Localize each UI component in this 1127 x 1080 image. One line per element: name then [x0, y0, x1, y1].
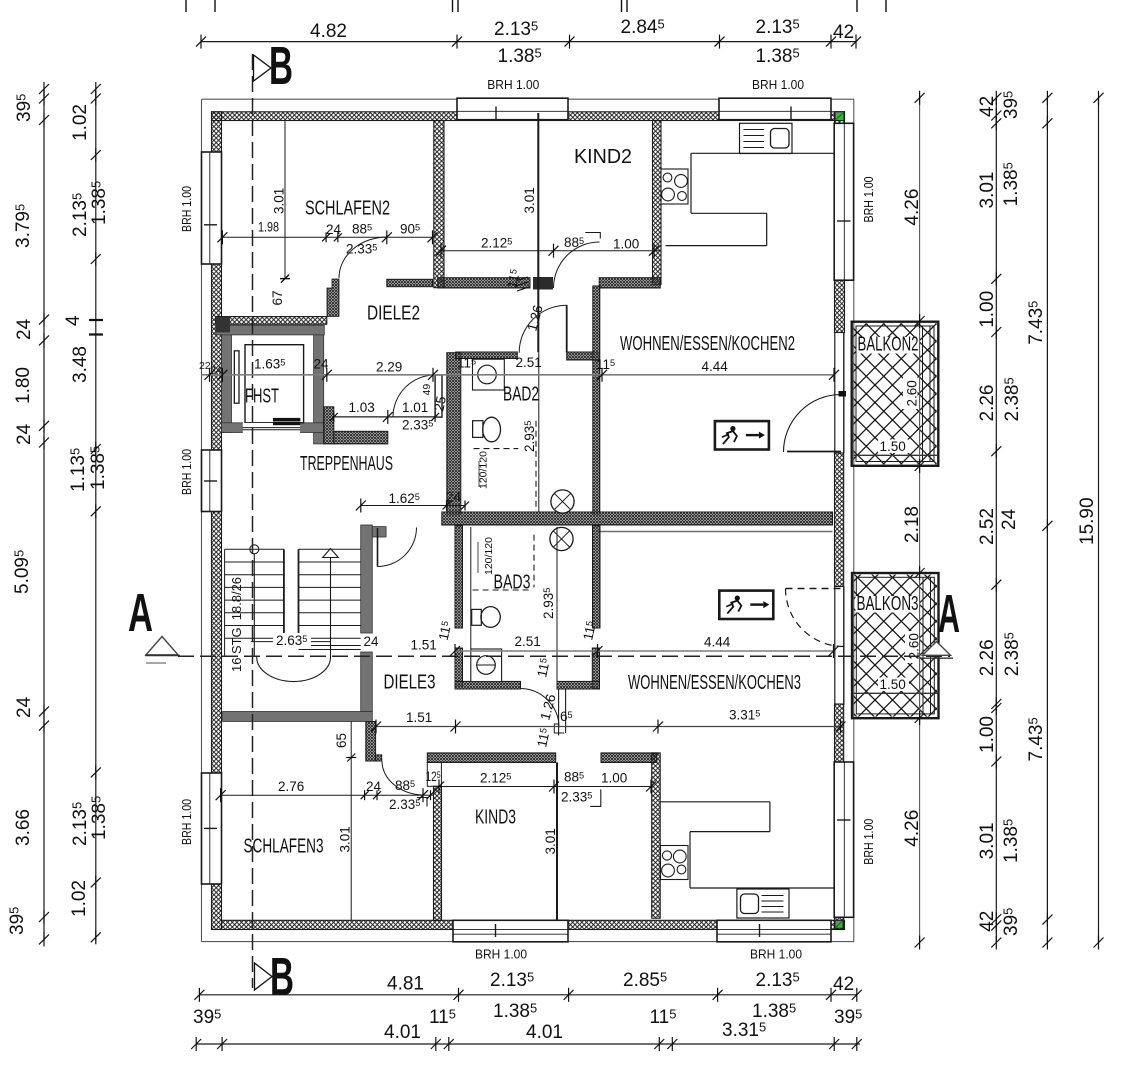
dim chain: left inner column [95, 89, 97, 941]
window: left wall window W2 (TREPPENHAUS) [202, 450, 222, 512]
svg-text:3.66: 3.66 [13, 809, 34, 846]
wall: wall below FHST / left of entry door2 [334, 431, 388, 444]
svg-text:SCHLAFEN2: SCHLAFEN2 [305, 198, 390, 220]
dim: BAD3 2.93-5 vertical [556, 527, 558, 686]
door: balcony2 door (leaf + arc + hinge) [787, 451, 841, 453]
svg-text:4.44: 4.44 [704, 635, 731, 650]
svg-text:A: A [128, 583, 153, 643]
svg-text:1.51: 1.51 [411, 638, 437, 653]
window: right wall window R1 (WOHNEN2) [834, 123, 853, 280]
svg-text:24: 24 [14, 318, 35, 340]
svg-text:2.26: 2.26 [977, 639, 998, 676]
svg-text:BRH 1.00: BRH 1.00 [750, 947, 802, 962]
wire: cut-off tick marks at very top [186, 0, 886, 12]
dim: row 2.76 / 24 / 88-5 y=795.2 [221, 794, 433, 796]
symbol: escape route sign WOHNEN3 [719, 591, 773, 619]
door: KIND3 door hook mark 2.33-5 [590, 789, 601, 806]
stairs: treads right flight [299, 549, 361, 649]
svg-text:2.76: 2.76 [278, 779, 304, 794]
svg-text:2.51: 2.51 [516, 355, 542, 370]
door: balcony3 door dashed (upper floor) [786, 588, 844, 590]
section marker B bottom [255, 963, 273, 990]
svg-text:42: 42 [833, 22, 854, 43]
door: SCHLAFEN3 door 88-5 swing arc [382, 761, 424, 795]
fixture: washbasin BAD3 [471, 649, 502, 682]
svg-text:4.01: 4.01 [384, 1022, 421, 1043]
fixture: WC BAD2 [473, 421, 483, 438]
label: BALKON3 [856, 596, 920, 613]
node: green corner marker bottom right [835, 920, 843, 928]
svg-text:24: 24 [446, 490, 462, 505]
stairs: dim 2.63-5 [251, 641, 331, 643]
svg-text:1.02: 1.02 [70, 104, 91, 141]
elevator guide bar [234, 351, 239, 403]
window: right wall window R2 (WOHNEN3) [834, 762, 853, 917]
dim chain: right line1 (4.26/2.18/4.26) [919, 98, 921, 943]
window: kitchen2 top window [719, 98, 831, 120]
dim: gray line y=651 (2.51 / 4.44) [455, 650, 834, 652]
svg-text:1.00: 1.00 [613, 237, 639, 252]
node: green corner marker top right [835, 112, 844, 121]
svg-text:B: B [270, 947, 294, 1007]
fixture: sink unit kitchen2 [740, 123, 793, 153]
svg-text:1.98: 1.98 [258, 220, 279, 235]
svg-text:4.44: 4.44 [702, 359, 729, 374]
svg-text:KIND2: KIND2 [574, 146, 632, 168]
svg-text:1.03: 1.03 [349, 400, 375, 415]
svg-text:24: 24 [314, 357, 330, 372]
svg-text:BALKON2: BALKON2 [858, 334, 919, 356]
svg-text:3.01: 3.01 [338, 826, 353, 852]
section line B-B vertical dashed [252, 54, 254, 988]
dim: row y=726.5 (1.51 / 3.31-5) [376, 726, 841, 728]
wall: WOHNEN2 left wall (11.5) [593, 286, 600, 514]
dim chain: right line2 [995, 98, 997, 943]
fixture: kitchen3 counter outline [660, 801, 770, 803]
fixture: shower dashed BAD2 [474, 448, 519, 450]
dim: balcony2 1.50 line [854, 454, 939, 456]
svg-text:16 STG. 18.8/26: 16 STG. 18.8/26 [229, 577, 244, 672]
section line A-A horizontal dashed [178, 655, 950, 657]
svg-text:3.01: 3.01 [543, 828, 558, 854]
door: apartment2 entry door (leaf + arc) [435, 375, 442, 417]
wall: bottom wall of room 2.12-5 (y 278) [438, 278, 530, 288]
svg-text:4.26: 4.26 [902, 810, 923, 847]
symbol: escape route sign WOHNEN2 [715, 421, 769, 449]
svg-text:DIELE3: DIELE3 [384, 672, 436, 694]
wall: TREPPENHAUS bottom wall (solid gray) [223, 712, 373, 722]
wall: FHST shaft bottom pieces [222, 423, 243, 433]
stairs: treads left flight [225, 549, 284, 638]
wall: KIND3 right wall (hatched X) [652, 753, 661, 918]
fixture: washbasin BAD2 [473, 359, 505, 390]
wall: BAD2 top wall pieces [456, 352, 518, 359]
wall: apartment separating wall above FHST [216, 317, 327, 325]
svg-text:42: 42 [833, 974, 854, 995]
section marker B top (triangle + letter) [254, 55, 272, 81]
shaft circles on middle wall [551, 490, 574, 513]
wall: SCHLAFEN2/KIND2-zone separating wall (hatched X) [434, 121, 444, 288]
window: kitchen3 bottom window [717, 920, 831, 942]
svg-text:1.00: 1.00 [601, 771, 627, 786]
svg-text:4.81: 4.81 [387, 974, 424, 995]
wall: KIND2 right wall (hatched X) [653, 121, 662, 285]
svg-text:BALKON3: BALKON3 [857, 593, 919, 615]
node: wall break marks on 2.12-room wall [516, 277, 529, 291]
dim: row 2.12-5 / 88-5 / 1.00 y=786.5 [439, 786, 651, 788]
window: KIND3 bottom window [453, 920, 568, 942]
dim chain: top row (4.82 / 2.13-5 / 2.84-5 / 2.13-5 / 42) [201, 41, 856, 43]
svg-text:3.01: 3.01 [977, 172, 998, 209]
door: KIND2 door hook mark 2.33-5 [585, 233, 600, 239]
svg-text:24: 24 [14, 423, 35, 445]
dim chain: bottom row1 (4.81 / 2.13-5 / 2.85-5 / 2.13-5 / 42) [199, 994, 856, 996]
svg-text:24: 24 [14, 696, 35, 718]
door: DIELE2 to WOHNEN2 door (leaf + arc) [566, 305, 568, 352]
svg-text:24: 24 [999, 508, 1020, 530]
svg-text:24: 24 [366, 779, 382, 794]
svg-text:3.01: 3.01 [272, 188, 287, 214]
wall: FHST shaft right (solid) [314, 335, 324, 444]
dim: SCHLAFEN2 row (1.98/24/88-5/90-5) y=237 [222, 236, 432, 238]
dim chain: right line4 (15.90) [1098, 98, 1100, 943]
door: corridor3/WOHNEN3 door (leaf + arc) [558, 689, 560, 736]
wall: SCHLAFEN2 bottom wall piece (90-5) [387, 279, 433, 286]
fixture: stove kitchen2 [661, 169, 688, 204]
svg-text:TREPPENHAUS: TREPPENHAUS [300, 453, 393, 475]
fixture: stove kitchen3 [661, 846, 689, 880]
svg-text:24: 24 [364, 634, 380, 649]
svg-text:2.18: 2.18 [902, 506, 923, 543]
window: left wall window W1 (SCHLAFEN2) [202, 152, 222, 264]
door: SCHLAFEN2 door 88-5 swing arc [339, 237, 387, 278]
dim: SCHLAFEN2 vertical line 3.01/1.98 [284, 121, 286, 279]
svg-text:A: A [938, 584, 960, 644]
svg-text:1.80: 1.80 [13, 367, 34, 404]
svg-text:24: 24 [326, 222, 342, 237]
wall: left exterior wall (hatched) [212, 112, 222, 930]
svg-text:120/120: 120/120 [483, 537, 495, 575]
door: KIND2 door 88-5 swing arc [554, 242, 600, 288]
svg-text:24: 24 [210, 365, 222, 377]
balcony BALKON2 box with lattice [853, 323, 936, 464]
svg-text:42: 42 [977, 96, 998, 117]
dim: SCHLAFEN3 vertical 65 / 3.01 [350, 722, 352, 921]
svg-text:BAD3: BAD3 [494, 572, 531, 594]
fixture: shower dashed BAD3 [533, 535, 535, 588]
svg-text:67: 67 [270, 290, 285, 305]
svg-text:3.01: 3.01 [522, 187, 537, 213]
svg-text:BAD2: BAD2 [503, 384, 539, 406]
svg-text:BRH 1.00: BRH 1.00 [752, 77, 804, 92]
wall: corridor3 wall below TREPPENHAUS [366, 722, 376, 762]
svg-text:42: 42 [977, 911, 998, 932]
svg-text:65: 65 [334, 733, 349, 748]
stairs: walking line with start circle [250, 545, 259, 554]
dim: row 1.03 / 1.01 y=417 [334, 416, 435, 418]
svg-text:SCHLAFEN3: SCHLAFEN3 [244, 836, 324, 858]
svg-text:4.01: 4.01 [526, 1022, 563, 1043]
node: dark block on left wall at FHST (22/24) [216, 317, 230, 332]
svg-text:3.48: 3.48 [70, 346, 91, 383]
wire: right wall face lines at door zones [834, 333, 836, 454]
svg-text:2.26: 2.26 [977, 385, 998, 422]
dim: gray line y=374.8 (1.63-5 / 2.29 / 4.44) [202, 374, 835, 376]
svg-text:2.29: 2.29 [376, 360, 402, 375]
wall: BAD2 left wall column [447, 353, 461, 514]
elevator door sill [243, 423, 301, 432]
svg-text:1.51: 1.51 [406, 710, 432, 725]
label: BALKON2 [857, 337, 920, 354]
wall: BAD3 bottom wall pieces [455, 681, 521, 689]
wall: partition mullion KIND2 (11.5) [537, 113, 539, 352]
wall: KIND3 top wall pieces [427, 753, 555, 763]
svg-text:1.50: 1.50 [880, 439, 906, 454]
door: apartment3 entry door from TREPPENHAUS (leaf + arc) [377, 528, 379, 567]
svg-text:B: B [269, 36, 293, 96]
svg-text:1.01: 1.01 [402, 400, 428, 415]
svg-text:WOHNEN/ESSEN/KOCHEN2: WOHNEN/ESSEN/KOCHEN2 [620, 333, 795, 355]
svg-text:BRH 1.00: BRH 1.00 [475, 947, 527, 962]
svg-text:BRH 1.00: BRH 1.00 [179, 799, 194, 845]
wall: bottom exterior wall (hatched) [222, 920, 845, 929]
svg-text:2.52: 2.52 [977, 508, 998, 545]
svg-text:1.02: 1.02 [69, 880, 90, 917]
wall: FHST shaft top (solid) [216, 325, 325, 335]
fixture: kitchen2 counter outline [691, 152, 835, 154]
svg-text:4.82: 4.82 [310, 21, 347, 42]
svg-text:1.00: 1.00 [977, 291, 998, 328]
svg-text:49: 49 [421, 384, 433, 396]
svg-text:BRH 1.00: BRH 1.00 [179, 449, 194, 495]
svg-text:25: 25 [431, 395, 449, 413]
svg-text:3.01: 3.01 [977, 822, 998, 859]
wall: right exterior wall segments (hatched) [835, 112, 845, 124]
svg-text:1.50: 1.50 [880, 677, 906, 692]
elevator FHST car [245, 345, 304, 423]
wall: BAD3 right wall (11.5) [593, 526, 601, 628]
svg-text:DIELE2: DIELE2 [367, 303, 420, 325]
wire: outer envelope thin outline [202, 98, 855, 100]
wall: middle apartment separating wall [442, 512, 833, 525]
wall: TREPPENHAUS right wall (solid gray) [361, 525, 373, 633]
window: KIND2 top window [457, 98, 568, 120]
dim chain: left outer column [43, 89, 45, 941]
svg-text:FHST: FHST [245, 386, 279, 408]
wall: KIND2 bottom wall right piece [599, 278, 660, 288]
stairs: up arrow [330, 557, 332, 657]
dim chain: right line3 (7.43-5 x2) [1046, 98, 1048, 943]
wall: BAD3 left wall [455, 526, 463, 628]
dim: row 1.62-5 / 24 y=505.5 [361, 505, 465, 507]
balcony BALKON3 box with lattice [854, 575, 937, 717]
fixture: sink unit kitchen3 [737, 889, 789, 918]
fixture: WC BAD3 [472, 609, 482, 625]
svg-text:BRH 1.00: BRH 1.00 [487, 77, 539, 92]
svg-text:BRH 1.00: BRH 1.00 [861, 819, 876, 865]
svg-text:4: 4 [63, 315, 84, 326]
stairs: left edge line [224, 549, 226, 657]
wall: step wall at SCHLAFEN2 door (24) [327, 279, 339, 317]
wall: FHST shaft left (solid) [222, 335, 232, 433]
svg-text:KIND3: KIND3 [475, 807, 516, 829]
dim: BAD2 2.93-5 vertical [538, 352, 540, 512]
svg-text:2.51: 2.51 [515, 634, 541, 649]
stairs: stringers center [283, 549, 285, 640]
svg-text:BRH 1.00: BRH 1.00 [861, 177, 876, 223]
window: left wall window W3 (SCHLAFEN3) [202, 773, 222, 884]
svg-text:1.00: 1.00 [977, 716, 998, 753]
wall: bar left of apartment2 entry door [324, 407, 334, 444]
dim: row 2.12-5 / 88-5 / 1.00 y=250.7 [441, 250, 661, 252]
dim: balcony3 1.50 line [854, 692, 939, 694]
wall: KIND3 left wall corner (12-5 label inside) [427, 763, 441, 787]
svg-text:BRH 1.00: BRH 1.00 [179, 186, 194, 232]
node: solid block at partition crossing [533, 277, 553, 290]
wall: partition mullion KIND3 (11.5) [556, 763, 558, 921]
svg-text:WOHNEN/ESSEN/KOCHEN3: WOHNEN/ESSEN/KOCHEN3 [628, 672, 801, 694]
wall: top exterior wall (hatched) [212, 112, 845, 121]
svg-text:2.60: 2.60 [905, 380, 920, 406]
svg-text:15.90: 15.90 [1077, 497, 1098, 545]
svg-text:4.26: 4.26 [902, 189, 923, 226]
stairs: lower return arc [257, 657, 331, 682]
dim chain: bottom row2 (4.01 / 4.01 / 3.31-5) [196, 1043, 860, 1045]
